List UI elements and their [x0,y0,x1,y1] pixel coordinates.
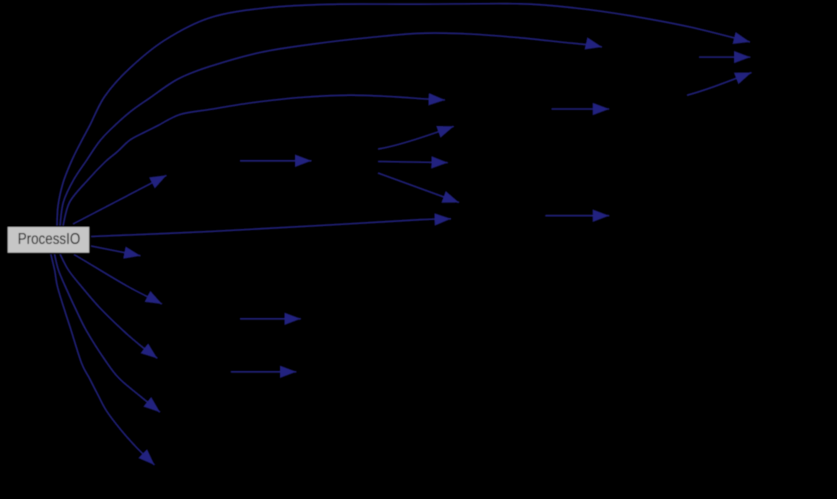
wire edge I bottom fan 3 [55,254,161,412]
wire edge D short up arrow [73,175,167,224]
wire edge R ascending arrow [687,73,752,96]
wire edge J bottom fan 4 [51,254,155,465]
wire edge G bottom fan 1 [74,255,162,305]
wire edge S horizontal arrow y318 [240,318,301,320]
wire edge A ProcessIO to far top-right node [57,4,750,226]
wire edge K mid horizontal arrow [240,160,312,162]
wire edge L fan3 top [378,126,454,149]
wire edge H bottom fan 2 [60,254,157,358]
node ProcessIO [7,226,90,253]
wire edge T horizontal arrow y372 [231,371,296,373]
wire edge Q horizontal arrow y57 [699,56,750,58]
wire edge F short right-down arrow [91,246,141,256]
wire edge B ProcessIO to mid-top node [60,33,602,226]
wire edge C ProcessIO to x445 node [63,95,445,226]
wire edge E long near-horizontal [91,219,451,237]
wire edge P horizontal arrow y216 [545,215,609,217]
wire edge O horizontal arrow y109 [552,108,610,110]
svg-text:ProcessIO: ProcessIO [18,231,81,248]
wire edge M fan3 mid [378,162,448,163]
wire edge N fan3 bottom [378,173,459,203]
